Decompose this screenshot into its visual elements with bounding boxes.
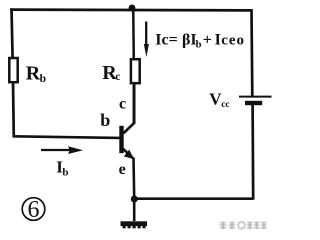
node top junction dot <box>129 5 136 12</box>
svg-text:c: c <box>115 71 120 83</box>
resistor Rc <box>131 59 140 83</box>
svg-text:c: c <box>119 96 126 113</box>
svg-text:ceo: ceo <box>221 33 245 49</box>
figure number circled 6 <box>22 197 45 223</box>
svg-text:b: b <box>40 73 46 85</box>
transistor Q1 emitter stroke with arrow <box>123 148 135 159</box>
svg-text:b: b <box>100 110 110 130</box>
svg-text:6: 6 <box>28 197 40 223</box>
svg-text:cc: cc <box>221 100 229 110</box>
ground symbol <box>121 221 148 228</box>
watermark toutiao blob <box>220 222 267 229</box>
wire ground stub <box>133 200 136 221</box>
wire left vertical (below Rb) <box>12 82 16 137</box>
wire right vertical (top segment above battery) <box>250 9 254 96</box>
svg-text:b: b <box>62 167 68 179</box>
node emitter junction dot <box>131 196 138 203</box>
transistor Q1 base bar <box>119 126 123 153</box>
wire top horizontal rail <box>10 8 252 11</box>
wire Rc branch (dot to resistor) <box>132 8 135 60</box>
svg-text:Ic=: Ic= <box>155 32 177 49</box>
svg-text:I: I <box>215 32 221 49</box>
wire emitter vertical <box>132 158 135 199</box>
svg-text:βI: βI <box>182 32 197 49</box>
svg-text:+: + <box>203 32 212 49</box>
arrow Ib <box>41 146 83 154</box>
wire right vertical (below battery) <box>251 105 254 200</box>
battery Vcc <box>239 97 272 106</box>
resistor Rb <box>9 58 17 82</box>
svg-text:e: e <box>119 161 126 178</box>
label formula Ic = beta Ib + Iceo <box>155 32 245 51</box>
wire base horizontal <box>13 136 120 138</box>
svg-text:R: R <box>26 62 41 84</box>
wire collector vertical (Rc to transistor) <box>133 83 136 125</box>
svg-text:b: b <box>196 39 202 50</box>
transistor Q1 collector stroke <box>124 85 134 133</box>
wire bottom horizontal <box>135 197 254 200</box>
arrow Ic <box>144 22 149 58</box>
wire left vertical (top segment above Rb) <box>12 8 13 58</box>
